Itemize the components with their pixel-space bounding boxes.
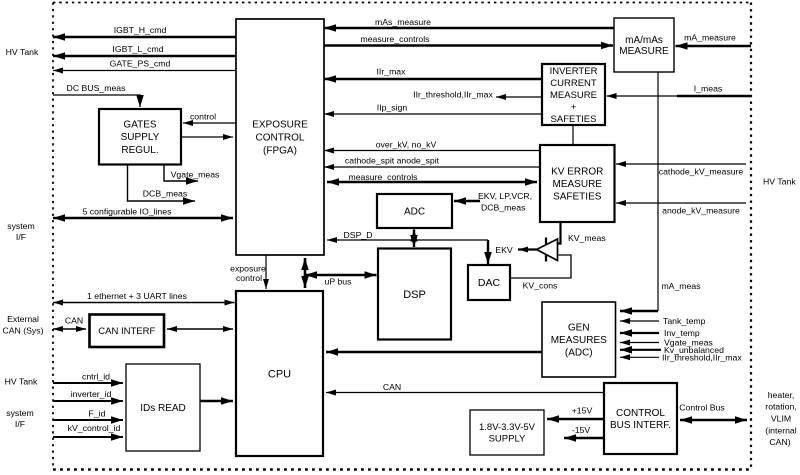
wire: +15V [547,415,604,423]
svg-text:Vgate_meas: Vgate_meas [171,170,220,180]
label: mA_measure [684,33,736,43]
svg-text:DAC: DAC [478,277,501,289]
label: Tank_temp [663,316,706,326]
svg-text:MEASURE: MEASURE [553,179,603,190]
wire: DSP_D branch to DAC [484,240,492,264]
wire: IIp_sign [324,111,542,117]
svg-text:system: system [6,408,34,418]
wire: ADC input stub (EKV,LP,VCR,DCB_meas) [454,197,480,205]
block: IDs READ [126,364,200,451]
svg-text:IGBT_H_cmd: IGBT_H_cmd [114,25,167,35]
svg-text:External: External [7,314,39,324]
svg-text:VLIM: VLIM [771,414,791,424]
label: CAN (Sys) [2,326,43,336]
label: HV Tank (right) [763,177,796,187]
svg-text:CAN: CAN [65,316,83,326]
svg-text:IIr_threshold,IIr_max: IIr_threshold,IIr_max [662,353,742,363]
svg-text:I/F: I/F [15,419,25,429]
wire: measure_controls (KV error) [327,178,537,186]
svg-text:DSP_D: DSP_D [344,230,373,240]
wire: uP bus vertical (FPGA-CPU) [301,258,309,288]
svg-text:ADC: ADC [404,207,425,218]
wire: Vgate_meas (GEN input) [620,340,659,346]
label: anode_kV_measure [662,206,740,216]
wire: mAs_measure [324,24,614,32]
label: kV_control_id [68,423,121,433]
svg-text:over_kV, no_kV: over_kV, no_kV [376,140,437,150]
svg-text:INVERTER: INVERTER [550,66,598,77]
wire: Vgate_meas [164,165,198,185]
svg-text:I_meas: I_meas [694,84,723,94]
label: HV Tank (top left) [6,47,39,57]
label: DCB_meas (ADC input) [481,203,526,213]
block: DSP [378,249,451,340]
label: -15V [572,425,591,435]
svg-text:cathode_spit anode_spit: cathode_spit anode_spit [345,156,440,166]
svg-text:HV Tank: HV Tank [763,177,796,187]
svg-text:1 ethernet + 3 UART lines: 1 ethernet + 3 UART lines [87,291,188,301]
block: INVERTER CURRENT MEASURE + SAFETIES [542,64,605,125]
wire: kV_control_id [53,433,123,441]
label: measure_controls [360,34,430,44]
wire: Inv_temp [620,329,659,337]
wire: cntrl_id [53,379,123,387]
svg-text:HV Tank: HV Tank [6,47,39,57]
label: mA_meas [661,281,701,291]
wire: mA_meas stub into GEN MEASURES [620,307,658,315]
label: DSP_D [344,230,373,240]
label: DC BUS_meas [67,83,127,93]
label: DCB_meas [143,189,188,199]
wire: F_id [53,416,123,424]
label: Vgate_meas [171,170,220,180]
svg-text:Control Bus: Control Bus [679,403,725,413]
svg-text:SAFETIES: SAFETIES [551,114,597,125]
svg-text:+: + [571,102,577,113]
label: EKV [495,245,513,255]
wire: inverter block to KV error block [572,125,574,145]
svg-text:cntrl_id: cntrl_id [82,372,110,382]
label: KV_cons [523,281,558,291]
wire: DSP_D [327,237,488,243]
label: 1 ethernet + 3 UART lines [87,291,188,301]
label: IIr_threshold,IIr_max [413,90,493,100]
svg-text:heater,: heater, [768,390,795,400]
label: HV Tank (left bottom) [5,377,38,387]
wire: CAN INTERF to CPU [167,326,233,332]
label: heater, [768,390,795,400]
svg-text:mA_meas: mA_meas [661,281,701,291]
wire: IIr_threshold,IIr_max (GEN input) [620,354,659,360]
svg-text:CAN): CAN) [769,437,790,447]
label: Inv_temp [664,328,700,338]
svg-text:mA/mAs: mA/mAs [625,35,663,46]
svg-text:uP bus: uP bus [325,277,353,287]
block: GATES SUPPLY REGUL. [99,109,181,165]
svg-text:anode_kV_measure: anode_kV_measure [662,206,740,216]
svg-text:KV_meas: KV_meas [568,233,606,243]
svg-text:cathode_kV_measure: cathode_kV_measure [659,167,744,177]
op-amp comparator (KV error amplifier) [537,238,558,262]
wire: DC BUS_meas [53,95,144,107]
label: cntrl_id [82,372,110,382]
wire: CAN (CPU to CONTROL BUS INTERF) [326,390,604,396]
label: I/F (left mid) [16,232,26,242]
wire: Tank_temp [620,318,659,324]
wire: GATE_PS_cmd [53,68,236,74]
label: CAN) [769,437,790,447]
svg-text:GEN: GEN [568,323,590,334]
wire: uP bus horizontal (to DSP) [305,271,377,279]
wire: inverter_id [53,397,123,405]
svg-text:EXPOSURE: EXPOSURE [252,120,308,131]
svg-text:kV_control_id: kV_control_id [68,423,121,433]
wire: control (FPGA to GATES) [183,120,236,126]
svg-text:F_id: F_id [89,409,106,419]
block: EXPOSURE CONTROL (FPGA) [236,19,324,255]
block: ADC [377,194,452,228]
svg-text:MEASURES: MEASURES [551,335,607,346]
wire: exposure control (FPGA to CPU) [263,255,269,289]
svg-text:5 configurable IO_lines: 5 configurable IO_lines [83,207,173,217]
wire: ADC-DSP vertical bus [410,230,418,248]
svg-text:mA_measure: mA_measure [684,33,736,43]
svg-text:CURRENT: CURRENT [550,78,597,89]
label: 5 configurable IO_lines [83,207,173,217]
svg-text:CPU: CPU [268,368,291,380]
wire: I_meas (into inverter block) [607,93,678,99]
svg-text:CONTROL: CONTROL [616,408,665,419]
label: control (exposure control) [236,273,262,283]
label: IGBT_H_cmd [114,25,167,35]
svg-text:control: control [190,112,216,122]
svg-text:measure_controls: measure_controls [360,34,430,44]
wire: anode_kV_measure [616,200,746,206]
svg-text:(internal: (internal [765,426,796,436]
svg-text:EKV: EKV [495,245,513,255]
svg-text:measure_controls: measure_controls [348,172,418,182]
svg-text:(ADC): (ADC) [565,348,593,359]
svg-text:Inv_temp: Inv_temp [664,328,700,338]
wire: KV_meas [558,223,561,244]
label: (internal [765,426,796,436]
svg-text:SUPPLY: SUPPLY [489,434,526,445]
label: Control Bus [679,403,725,413]
block: mA/mAs MEASURE [614,18,674,72]
svg-text:CONTROL: CONTROL [256,133,305,144]
block: KV ERROR MEASURE SAFETIES [540,145,615,222]
svg-text:SAFETIES: SAFETIES [553,191,602,202]
svg-text:REGUL.: REGUL. [121,145,158,156]
wire: IIr_max [324,75,542,83]
block: DAC [468,265,510,300]
wire: cathode_spit anode_spit [324,164,540,170]
svg-text:-15V: -15V [572,425,591,435]
wire: -15V [564,434,604,442]
svg-text:IIr_threshold,IIr_max: IIr_threshold,IIr_max [413,90,493,100]
wire: GATES to FPGA [181,134,233,140]
block: GEN MEASURES (ADC) [542,302,616,377]
label: Kv_unbalanced [664,345,724,355]
svg-text:+15V: +15V [572,406,593,416]
wire: EKV output of comparator [518,247,537,253]
wire: cathode_kV_measure [616,161,746,167]
label: CAN (left) [65,316,83,326]
label: EKV, LP,VCR, [478,191,532,201]
wire: Control Bus [680,416,747,424]
label: I_meas [694,84,723,94]
svg-text:IDs READ: IDs READ [140,403,186,414]
label: uP bus [325,277,353,287]
label: External [7,314,39,324]
wire: IIr_threshold,IIr_max (from inverter block) [496,94,542,100]
label: Vgate_meas (GEN input) [664,338,713,348]
svg-text:CAN INTERF: CAN INTERF [98,326,155,337]
svg-text:exposure: exposure [230,264,266,274]
svg-text:system: system [7,221,35,231]
label: VLIM [771,414,791,424]
label: cathode_spit anode_spit [345,156,440,166]
svg-text:(FPGA): (FPGA) [263,146,297,157]
svg-text:DCB_meas: DCB_meas [143,189,188,199]
wire: mA/mAs to GEN MEASURES (mA_meas, vertical) [657,72,659,311]
svg-text:CAN (Sys): CAN (Sys) [2,326,43,336]
svg-text:KV ERROR: KV ERROR [551,167,603,178]
label: IIr_threshold,IIr_max (GEN input) [662,353,742,363]
svg-text:CAN: CAN [383,382,401,392]
svg-text:GATES: GATES [123,120,156,131]
label: inverter_id [71,389,112,399]
svg-text:SUPPLY: SUPPLY [121,132,160,143]
block: CPU [236,291,323,456]
label: KV_meas [568,233,606,243]
wire: mA_measure [676,42,752,50]
wire: IGBT_L_cmd [53,52,236,60]
svg-text:Tank_temp: Tank_temp [663,316,706,326]
wire: DCB_meas [128,165,196,205]
label: rotation, [765,402,796,412]
svg-text:GATE_PS_cmd: GATE_PS_cmd [110,59,171,69]
label: CAN (CPU bus) [383,382,401,392]
wire: GEN MEASURES to CPU [326,348,542,356]
label: F_id [89,409,106,419]
block: 1.8V-3.3V-5V SUPPLY [470,410,544,455]
svg-text:MEASURE: MEASURE [619,46,669,57]
svg-text:mAs_measure: mAs_measure [375,17,431,27]
svg-text:1.8V-3.3V-5V: 1.8V-3.3V-5V [479,422,536,433]
wire: IGBT_H_cmd [53,33,236,41]
label: IIp_sign [377,103,408,113]
label: cathode_kV_measure [659,167,744,177]
label: measure_controls (KV error) [348,172,418,182]
block: CAN INTERF [90,315,165,348]
svg-text:HV Tank: HV Tank [5,377,38,387]
label: +15V [572,406,593,416]
svg-text:IGBT_L_cmd: IGBT_L_cmd [112,44,163,54]
label: system (left mid) [7,221,35,231]
wire: IDs READ to CPU [200,397,233,405]
svg-text:BUS INTERF.: BUS INTERF. [610,420,671,431]
svg-text:I/F: I/F [16,232,26,242]
label: control [190,112,216,122]
svg-text:KV_cons: KV_cons [523,281,558,291]
wire: over_kV, no_kV [324,148,540,154]
svg-text:control: control [236,273,262,283]
svg-text:IIp_sign: IIp_sign [377,103,408,113]
label: IIr_max [377,67,407,77]
wire: KV_cons [510,255,571,278]
block: CONTROL BUS INTERF. [604,383,677,454]
label: exposure [230,264,266,274]
label: GATE_PS_cmd [110,59,171,69]
wire: 5 configurable IO_lines [53,214,233,222]
svg-text:DSP: DSP [403,289,426,301]
label: system (left bottom) [6,408,34,418]
wire: measure_controls (to mA/mAs) [324,42,613,50]
svg-text:EKV, LP,VCR,: EKV, LP,VCR, [478,191,532,201]
svg-text:IIr_max: IIr_max [377,67,407,77]
svg-text:inverter_id: inverter_id [71,389,112,399]
label: over_kV, no_kV [376,140,437,150]
svg-text:DC BUS_meas: DC BUS_meas [67,83,127,93]
wire: Kv_unbalanced [620,346,661,354]
label: I/F (left bottom) [15,419,25,429]
label: mAs_measure [375,17,431,27]
svg-text:DCB_meas: DCB_meas [481,203,526,213]
wire: 1 ethernet + 3 UART lines [53,300,235,306]
svg-text:MEASURE: MEASURE [550,90,597,101]
label: IGBT_L_cmd [112,44,163,54]
wire: I_meas (thick outer segment) [677,95,751,97]
wire: CAN (external to CAN INTERF) [53,326,86,332]
svg-text:rotation,: rotation, [765,402,796,412]
